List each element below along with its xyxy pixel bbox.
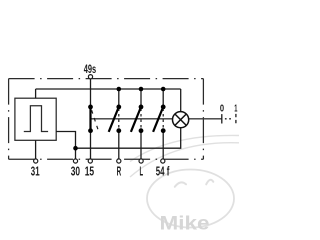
switch pole 2 contact (open) [109,107,119,132]
indicator lamp [173,112,189,128]
junction dot at terminal 30 node [73,146,78,151]
wire: pole 1 bottom to terminal 15 [90,131,92,160]
svg-text:54 f: 54 f [156,163,170,178]
terminal L [139,159,143,179]
wire: pole 3 bottom to terminal L [140,131,142,160]
wire: lamp bottom return [76,128,181,148]
wire: pole 4 stub from bus [162,89,164,107]
terminal 31 [31,159,40,179]
wire: pole 3 stub from bus [140,89,142,107]
pulse waveform symbol [24,106,48,132]
wire: pole 2 stub from bus [118,89,120,107]
position tick 1 (dashed) [235,114,237,124]
wire: box bottom to terminal 31 [35,140,37,159]
svg-text:15: 15 [85,163,94,178]
svg-text:0: 0 [220,103,224,115]
flasher relay box [15,98,56,140]
junction dots on bus [117,87,166,92]
dotted travel line [225,118,232,120]
terminal 15 [85,159,94,179]
wire: pole 2 bottom to terminal R [118,131,120,160]
switch pole 1 contact (closed) [91,107,100,133]
wire: box right output to junction [56,132,75,149]
switch housing outline (dash-dot border) [9,79,204,160]
actuator bar with position line [91,118,222,120]
svg-text:R: R [117,163,122,178]
switch pole 3 contact (open) [131,107,141,132]
contact bottom dots [88,128,166,133]
svg-text:L: L [140,163,144,178]
contact top dots [88,105,166,110]
wire: lamp feed from bus [180,89,182,112]
wire: 49s drop to pole 1 [90,79,92,107]
terminal 54f [156,159,170,179]
svg-text:30: 30 [71,163,80,178]
watermark logo [130,135,239,227]
svg-text:Mike: Mike [160,214,210,235]
wire: junction down to terminal 30 [75,148,77,159]
svg-text:49s: 49s [84,62,97,76]
terminal R [117,159,122,179]
svg-text:1: 1 [234,103,237,115]
position label 0 [220,103,224,115]
position tick 0 [221,114,223,123]
switch pole 4 contact (open) [153,107,163,132]
wire: bus line [36,88,181,90]
wire: pole 4 bottom to terminal 54f [162,131,164,160]
terminal 49s [84,62,97,79]
terminal 30 [71,159,80,179]
position label 1 [234,103,237,115]
wire: box top to bus [35,89,37,98]
svg-text:31: 31 [31,163,40,178]
